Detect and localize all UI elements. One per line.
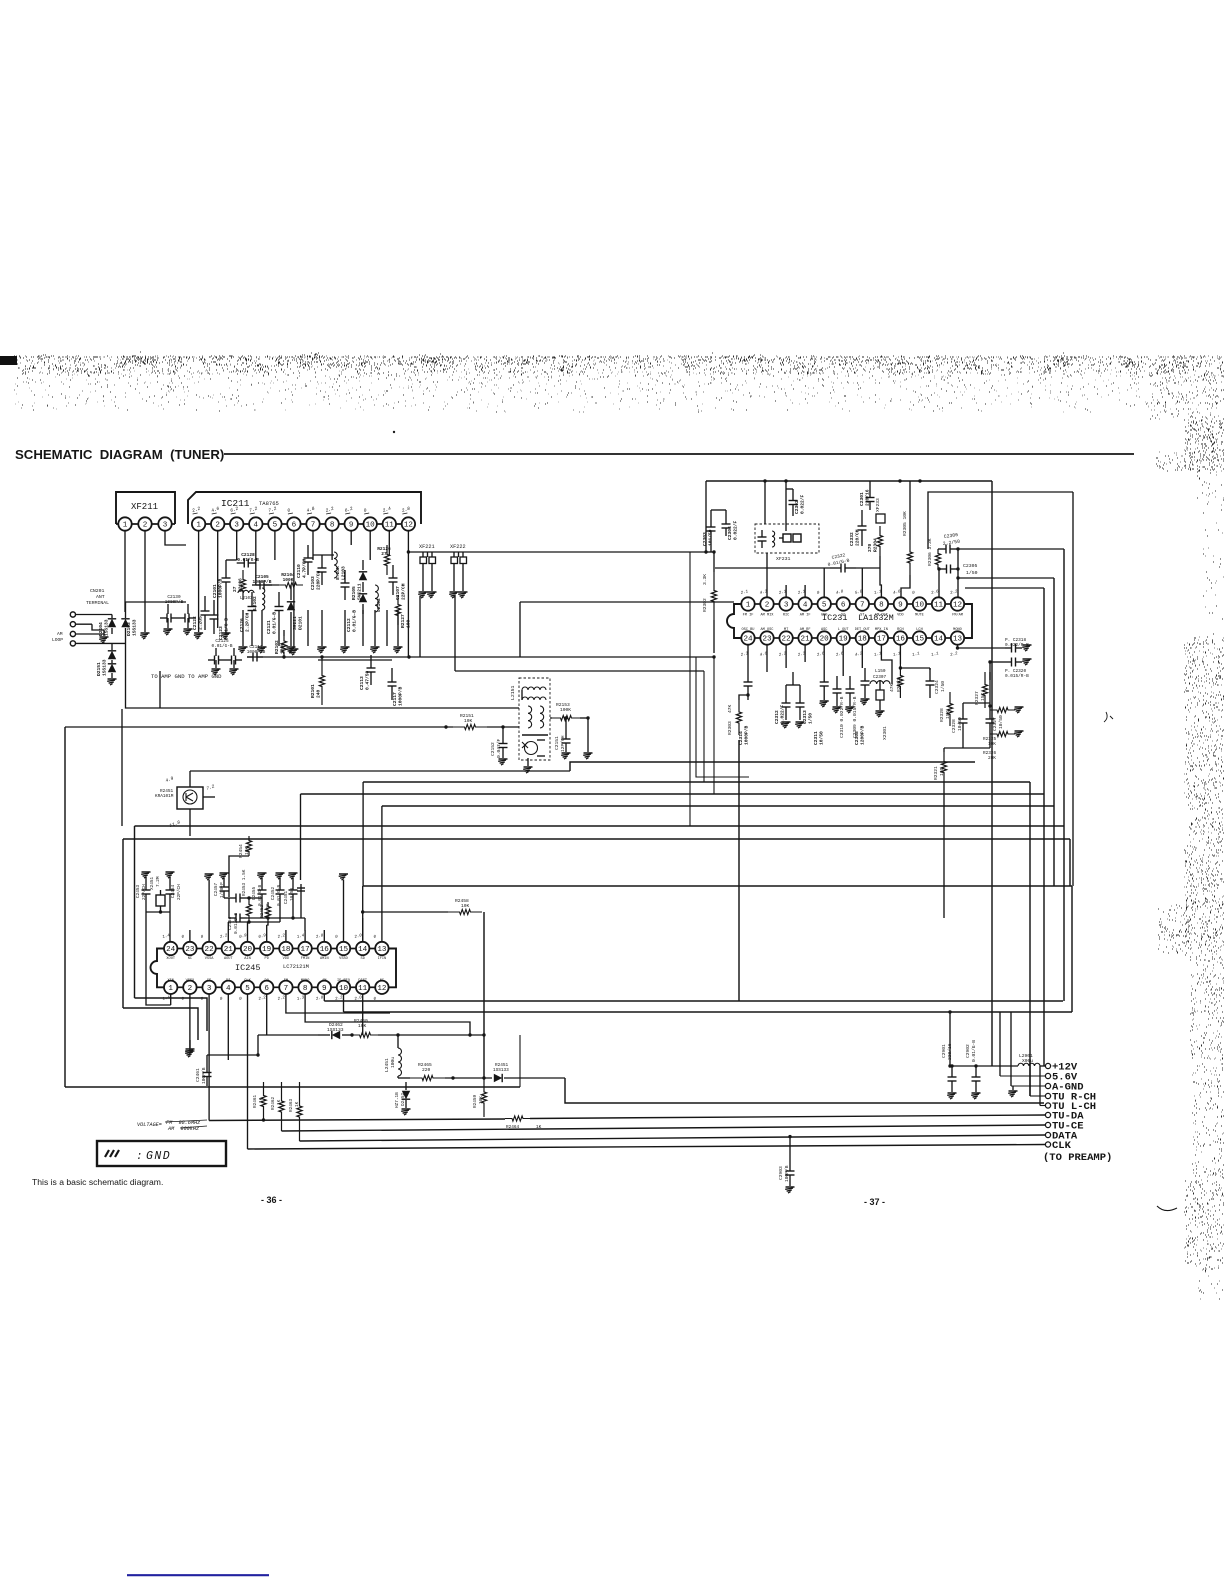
- svg-text:15: 15: [915, 636, 925, 644]
- wire: [256, 584, 279, 586]
- wire pin22 down: [785, 645, 787, 668]
- svg-text:1000P/B: 1000P/B: [253, 579, 272, 585]
- IC231 pin 9: [894, 597, 907, 610]
- wire left rail 602: [520, 601, 734, 603]
- capacitor C2151 12P/CH: [565, 730, 567, 739]
- svg-text::: :: [136, 1151, 143, 1163]
- svg-text:C2301: C2301: [859, 492, 865, 506]
- wire pin17 FMIN up: [304, 930, 306, 941]
- svg-text:IF.REQ: IF.REQ: [337, 979, 350, 983]
- svg-text:100P/B: 100P/B: [201, 1067, 207, 1084]
- IC245 pin up stubs: [189, 930, 191, 941]
- svg-text:9: 9: [898, 602, 903, 610]
- wire pin7 FM bend: [286, 994, 390, 1013]
- svg-text:RIC: RIC: [783, 614, 789, 618]
- svg-text:C2152: C2152: [490, 742, 496, 756]
- svg-text:C2452: C2452: [271, 886, 276, 900]
- svg-text:16: 16: [320, 946, 330, 954]
- wire rail E drop: [300, 794, 302, 880]
- capacitor C2311 10/50: [823, 645, 825, 668]
- capacitor C2456b lower: [229, 917, 236, 919]
- svg-text:2: 2: [765, 602, 770, 610]
- svg-text:C2123: C2123: [218, 626, 224, 640]
- IC231 pin 7: [856, 597, 869, 610]
- IC245 pin 8: [298, 981, 311, 994]
- svg-text:C2112: C2112: [346, 618, 352, 632]
- ground XF221 a: [422, 564, 424, 592]
- wire pin3 ce: [208, 994, 210, 1121]
- capacitor C2332 220/CH: [861, 510, 863, 526]
- capacitor C2301 220/16: [869, 489, 871, 498]
- resistor R2454 10K: [246, 836, 251, 856]
- ground D2452: [402, 1108, 411, 1110]
- svg-text:13: 13: [953, 636, 963, 644]
- wire C2302: [786, 488, 793, 490]
- L2151 windings: [522, 687, 546, 690]
- wire pin21 AOUT up: [227, 922, 229, 941]
- svg-text:27: 27: [232, 586, 238, 592]
- svg-text:15K: 15K: [980, 692, 986, 701]
- svg-text:MPX IN: MPX IN: [875, 628, 888, 632]
- svg-text:47K: 47K: [889, 683, 895, 692]
- svg-text:PD: PD: [265, 957, 269, 961]
- resistor R2462 1K: [279, 1082, 284, 1131]
- svg-text:10/50: 10/50: [818, 731, 824, 745]
- IC245 pin 21: [222, 942, 235, 955]
- resistor R2327 15K: [982, 672, 987, 708]
- wire bus right v4b: [1053, 578, 1055, 806]
- svg-text:240: 240: [315, 689, 321, 698]
- svg-text:12P/CH: 12P/CH: [560, 735, 566, 752]
- svg-text:220/CH: 220/CH: [854, 529, 860, 546]
- svg-text:AM MIX: AM MIX: [761, 614, 775, 618]
- svg-text:XF233: XF233: [875, 498, 881, 512]
- wire bus left h1008: [123, 1008, 198, 1040]
- wire pin21 down: [804, 645, 806, 662]
- svg-text:FM: FM: [284, 979, 288, 983]
- svg-text:GND: GND: [146, 1150, 171, 1163]
- IC245 pin 10: [337, 981, 350, 994]
- ground C2101: [222, 632, 231, 634]
- capacitor C2123 0.01/G-B: [213, 600, 215, 615]
- wire xtal net: [145, 902, 147, 912]
- IC245 pin 5: [241, 981, 254, 994]
- svg-text:1K: 1K: [277, 1099, 282, 1105]
- svg-text:9: 9: [322, 985, 327, 993]
- wire bus rail F: [382, 805, 1054, 807]
- svg-text:24: 24: [743, 636, 753, 644]
- IC211 pin 7: [306, 517, 319, 530]
- svg-text:L150: L150: [875, 669, 886, 674]
- svg-text:2: 2: [188, 985, 193, 993]
- wire left border v65: [64, 727, 66, 1087]
- IC245 pin 19: [260, 942, 273, 955]
- svg-text:0.47/50: 0.47/50: [364, 670, 370, 690]
- svg-text:D2151: D2151: [96, 662, 102, 676]
- svg-text:C2305: C2305: [963, 563, 978, 569]
- IC211 pin 2: [211, 517, 224, 530]
- paper noise top band: [14, 352, 1224, 412]
- svg-text:22P/CH: 22P/CH: [142, 884, 147, 900]
- svg-text:0.047/F: 0.047/F: [496, 738, 502, 758]
- resistor R2101 240: [319, 657, 324, 705]
- svg-text:1/50-P: 1/50-P: [220, 882, 225, 898]
- wire rail D drop: [362, 782, 364, 886]
- resistor R2325 10K: [990, 707, 1015, 712]
- IC211 pin chain: [192, 523, 415, 525]
- capacitor C2451 10/50: [292, 878, 294, 882]
- svg-text:10/50: 10/50: [998, 715, 1004, 729]
- IC231 pin 13: [951, 631, 964, 644]
- svg-text:8.2uK: 8.2uK: [335, 566, 341, 580]
- wire bus left v123: [122, 839, 124, 1008]
- svg-text:C2454: C2454: [171, 884, 176, 898]
- svg-text:20: 20: [243, 946, 253, 954]
- svg-text:DI: DI: [226, 979, 230, 983]
- resistor R2104 100K: [279, 582, 303, 587]
- svg-text:RCH: RCH: [897, 628, 903, 632]
- wire IC211 pin10 down: [369, 531, 371, 560]
- IC231 pin 8: [875, 597, 888, 610]
- svg-text:SVC211: SVC211: [356, 583, 362, 600]
- ground VSSO stub: [343, 880, 345, 941]
- svg-text:D2103: D2103: [126, 622, 132, 636]
- svg-text:23: 23: [762, 636, 772, 644]
- pen mark right margin: [1157, 1206, 1177, 1211]
- IC245 pin 22: [202, 942, 215, 955]
- wire right top h492: [928, 492, 1073, 549]
- svg-text:AMIN: AMIN: [320, 957, 329, 961]
- svg-text:24: 24: [166, 946, 176, 954]
- capacitor C2455 0.01/G-B: [261, 878, 263, 882]
- wire XF211 pin1 down: [124, 531, 126, 612]
- wire SD stub: [362, 918, 364, 941]
- svg-text:MUTE: MUTE: [915, 614, 924, 618]
- IC245 pin 24: [164, 942, 177, 955]
- grounds under C2312: [782, 721, 791, 723]
- wire 5.6V: [1000, 1075, 1045, 1077]
- svg-text:(TO PREAMP): (TO PREAMP): [1043, 1152, 1112, 1164]
- capacitor C2112 0.01/G-B: [344, 570, 346, 583]
- resistor R2304 270: [877, 526, 882, 556]
- capacitor C2306 2.2/50: [938, 548, 946, 550]
- wire bus rail E: [301, 793, 1045, 795]
- capacitor C2302 0.022/F: [792, 489, 794, 501]
- wire IC211 pin7 down: [312, 531, 314, 560]
- svg-text:X2301: X2301: [882, 726, 888, 740]
- wire R2151 left: [65, 726, 453, 728]
- ground L2151: [527, 758, 529, 766]
- svg-text:VSSO: VSSO: [339, 957, 348, 961]
- svg-text:DIST: DIST: [358, 979, 367, 983]
- svg-text:This is a basic schematic diag: This is a basic schematic diagram.: [32, 1177, 163, 1187]
- resistor R2328 15K: [947, 692, 952, 726]
- wire left rail 671: [455, 670, 704, 672]
- wire C2151 top: [565, 718, 567, 730]
- capacitor C2327 10/50: [989, 708, 991, 719]
- svg-text:2.2K: 2.2K: [266, 903, 271, 914]
- terminal 5.6V: [1045, 1073, 1050, 1078]
- svg-text:1: 1: [196, 522, 201, 530]
- capacitor C2457 1/50-P: [223, 878, 225, 880]
- crystal X2301: [876, 690, 884, 700]
- svg-text:KRA101M: KRA101M: [155, 794, 174, 799]
- svg-text:R2463: R2463: [289, 1098, 294, 1112]
- XF231 internals: [761, 530, 763, 537]
- ground VSSA: [208, 880, 210, 941]
- wire bus right v1: [1029, 782, 1031, 1096]
- svg-text:R2307: R2307: [896, 678, 902, 692]
- wire top bus y481: [706, 480, 992, 482]
- svg-text:12: 12: [377, 985, 387, 993]
- IC231 pin 17: [875, 631, 888, 644]
- wire L2451 top: [397, 1035, 399, 1048]
- resistor R2127 100: [395, 595, 400, 625]
- wire Q2451 right: [203, 796, 215, 798]
- IC231 pin 3: [779, 597, 792, 610]
- svg-text:C2302: C2302: [794, 500, 800, 514]
- wire bus right v2: [1043, 588, 1045, 1066]
- IC231 pin 11: [932, 597, 945, 610]
- CN201 pin 1: [70, 612, 75, 617]
- svg-text:22P/CH: 22P/CH: [177, 884, 182, 900]
- wire: [869, 481, 871, 489]
- svg-text:C2903: C2903: [778, 1166, 784, 1180]
- svg-text:11: 11: [385, 522, 395, 530]
- svg-text:8: 8: [303, 985, 308, 993]
- svg-text:10: 10: [366, 522, 376, 530]
- svg-text:TA8765: TA8765: [259, 500, 279, 507]
- svg-text:1200P/B: 1200P/B: [859, 725, 865, 745]
- terminal TU-DA: [1045, 1112, 1050, 1117]
- svg-text:AM IF: AM IF: [800, 614, 811, 618]
- IC231 pin chain links: [754, 603, 762, 605]
- wire right h549: [958, 548, 1064, 550]
- svg-text:AIN: AIN: [244, 957, 250, 961]
- svg-text:VOLTAGE=: VOLTAGE=: [137, 1122, 162, 1128]
- svg-text:FM DET: FM DET: [875, 614, 889, 618]
- svg-text:12: 12: [953, 602, 963, 610]
- svg-text:VDD: VDD: [897, 614, 903, 618]
- wire D2103 up to bus: [126, 601, 187, 603]
- capacitor C2107 22P/CH: [392, 565, 394, 578]
- wire right h578: [958, 577, 1054, 579]
- capacitor pair C2320: [1005, 661, 1012, 663]
- svg-text:3: 3: [234, 522, 239, 530]
- wire R2321 net: [943, 748, 945, 752]
- blue pen line bottom: [127, 1574, 269, 1576]
- svg-text:C2307: C2307: [873, 675, 887, 680]
- svg-text:0.01/G-B: 0.01/G-B: [237, 557, 259, 563]
- ground C2125 a: [212, 668, 221, 670]
- svg-text:R2461: R2461: [253, 1094, 258, 1108]
- svg-text:C2461: C2461: [195, 1068, 201, 1082]
- wire pin11 dist: [362, 994, 364, 1035]
- IC245 pin 7: [279, 981, 292, 994]
- diode D2151 1SS133 pair: [111, 643, 113, 650]
- svg-text:GND: GND: [821, 614, 827, 618]
- svg-text:15K: 15K: [945, 710, 951, 719]
- svg-text:100u: 100u: [390, 1057, 396, 1068]
- resistor R2463 1K: [297, 1082, 302, 1141]
- svg-text:TERMINAL: TERMINAL: [86, 600, 109, 606]
- svg-text:XF221: XF221: [419, 544, 435, 550]
- wire xtal to pin24: [169, 912, 171, 941]
- IC211 pin 12: [402, 517, 415, 530]
- svg-text:100K: 100K: [279, 643, 285, 654]
- svg-text:R2302: R2302: [702, 598, 708, 612]
- svg-text:1/50: 1/50: [807, 713, 813, 724]
- coil L2103 8.2uH: [334, 552, 337, 578]
- wire Q2451 top: [189, 771, 191, 787]
- resistor R2153 100K: [552, 715, 580, 720]
- resistor R2126 27: [384, 545, 389, 575]
- svg-text:18: 18: [281, 946, 291, 954]
- svg-text:TO AMP GND TO AMP GND: TO AMP GND TO AMP GND: [151, 673, 222, 680]
- svg-text:220P/CH: 220P/CH: [315, 570, 321, 590]
- svg-text:X00u: X00u: [1022, 1058, 1033, 1064]
- coil L2451 100u: [398, 1048, 402, 1076]
- capacitor C2126 2.2P/CH: [251, 592, 253, 607]
- resistor R2459 10K: [481, 1078, 486, 1117]
- svg-text:0.01/G-B: 0.01/G-B: [211, 644, 232, 649]
- svg-text:19: 19: [262, 946, 272, 954]
- IC245 pin 6: [260, 981, 273, 994]
- capacitor C2113 0.47/50: [370, 655, 372, 668]
- IC231 pin 6: [837, 597, 850, 610]
- IC231 pin 15: [913, 631, 926, 644]
- svg-text:C2308: C2308: [854, 731, 860, 745]
- wire bus rail D: [363, 781, 1030, 783]
- svg-text:21: 21: [801, 636, 811, 644]
- svg-text:2.2uS: 2.2uS: [197, 616, 203, 630]
- svg-text:100K: 100K: [560, 707, 571, 713]
- wire mid rail: [318, 659, 392, 661]
- IC231 pin 2: [760, 597, 773, 610]
- resistor R2302 3.3K vertical: [711, 572, 716, 620]
- svg-text:XOUT: XOUT: [166, 957, 175, 961]
- wire R2458 left: [363, 911, 448, 913]
- capacitor C2461 100P/B: [206, 1063, 208, 1073]
- wire Q2451 bottom: [189, 809, 191, 836]
- svg-text:22: 22: [782, 636, 792, 644]
- svg-text:10/50: 10/50: [957, 717, 963, 731]
- wire R2305: [909, 481, 911, 540]
- wire pin13 right: [957, 645, 959, 648]
- XF211 pin 2: [138, 517, 151, 530]
- wire v958 to pin12: [957, 549, 959, 597]
- XF211 pin 1: [118, 517, 131, 530]
- svg-text:C2901: C2901: [941, 1044, 947, 1058]
- IC211 pin 3: [230, 517, 243, 530]
- capacitor C2303 101/50: [710, 510, 712, 516]
- svg-text:3.3K: 3.3K: [702, 574, 708, 585]
- ground C2455: [258, 872, 267, 874]
- svg-text:1: 1: [746, 602, 751, 610]
- IC245 pin 17: [298, 942, 311, 955]
- svg-text:C2312: C2312: [774, 710, 780, 724]
- svg-text:C2101: C2101: [212, 584, 218, 598]
- svg-text:1000P/B: 1000P/B: [397, 686, 403, 706]
- IC231 pin 24: [741, 631, 754, 644]
- svg-text:9: 9: [349, 522, 354, 530]
- svg-text:AM: AM: [322, 979, 326, 983]
- wire bus rail B: [135, 825, 1065, 827]
- svg-text:10: 10: [339, 985, 349, 993]
- diode D2101: [290, 585, 292, 600]
- svg-text:12: 12: [404, 522, 414, 530]
- svg-text:2.2P/CH: 2.2P/CH: [244, 612, 250, 632]
- capacitor C2453 22P/CH: [145, 877, 147, 882]
- resistor R2306 3.3K: [935, 549, 940, 569]
- IC245 pin chain links: [176, 948, 184, 950]
- svg-text:SO: SO: [841, 614, 845, 618]
- wire bus right v3: [1053, 806, 1055, 886]
- svg-text:15: 15: [339, 946, 349, 954]
- capacitor C2328 10/50: [962, 708, 964, 719]
- svg-text:100P/B: 100P/B: [784, 1165, 790, 1182]
- IC245 pin 13: [375, 942, 388, 955]
- svg-text:5: 5: [822, 602, 827, 610]
- capacitor C2103 220P/CH: [321, 555, 323, 568]
- resistor R2151 10K: [453, 724, 487, 729]
- diode D2451 1SS133: [470, 1077, 492, 1079]
- svg-text:S9221: S9221: [292, 616, 298, 630]
- svg-text:1/50: 1/50: [940, 681, 946, 692]
- svg-text:8: 8: [879, 602, 884, 610]
- wire rail F drop: [381, 806, 383, 930]
- wire pin6 do: [266, 994, 268, 1035]
- svg-text:0.022/F: 0.022/F: [799, 494, 805, 514]
- diode D2462 1SS133: [318, 1034, 330, 1036]
- IC245 pin 14: [356, 942, 369, 955]
- svg-text:C2311: C2311: [813, 731, 819, 745]
- wire XF211 pin2 down: [144, 531, 146, 632]
- paper noise right margin: [1150, 363, 1224, 1299]
- wire 1086 rail: [65, 1086, 520, 1088]
- svg-text:C2151: C2151: [554, 736, 560, 750]
- wire bus right v4: [1063, 549, 1065, 1001]
- svg-text:XF231: XF231: [776, 556, 791, 562]
- svg-text:MONO: MONO: [301, 979, 310, 983]
- svg-text:LOOP: LOOP: [52, 637, 63, 643]
- capacitor C2456 0.01/G-B: [229, 897, 236, 899]
- capacitor pair C2318 0.022/R-B: [1005, 647, 1012, 649]
- svg-text:C2103: C2103: [310, 576, 316, 590]
- svg-text:VSSA: VSSA: [205, 957, 214, 961]
- svg-text:D2104: D2104: [98, 622, 104, 636]
- svg-text:CE: CE: [207, 979, 211, 983]
- svg-text:0.015/R-B: 0.015/R-B: [1005, 674, 1029, 679]
- IC211 pin 1: [192, 517, 205, 530]
- wire v739: [738, 740, 740, 1001]
- svg-text:X2451: X2451: [150, 876, 155, 890]
- svg-text:FMIN: FMIN: [301, 957, 310, 961]
- wire +12V rail: [950, 1065, 1018, 1067]
- svg-text:DO: DO: [265, 979, 269, 983]
- resistor R2465 220: [410, 1075, 445, 1080]
- wire 568 rail: [715, 567, 830, 569]
- svg-text:R2304: R2304: [872, 538, 878, 552]
- capacitor C2324 1/50: [929, 668, 931, 681]
- svg-text:13: 13: [377, 946, 387, 954]
- IC231 pin 10: [913, 597, 926, 610]
- svg-text:LCH: LCH: [916, 628, 922, 632]
- svg-text:AOUT: AOUT: [224, 957, 233, 961]
- capacitor C2101 1000P/B: [225, 560, 227, 578]
- svg-text:0.01/G-B: 0.01/G-B: [271, 612, 277, 634]
- CN201 pin 3: [70, 631, 75, 636]
